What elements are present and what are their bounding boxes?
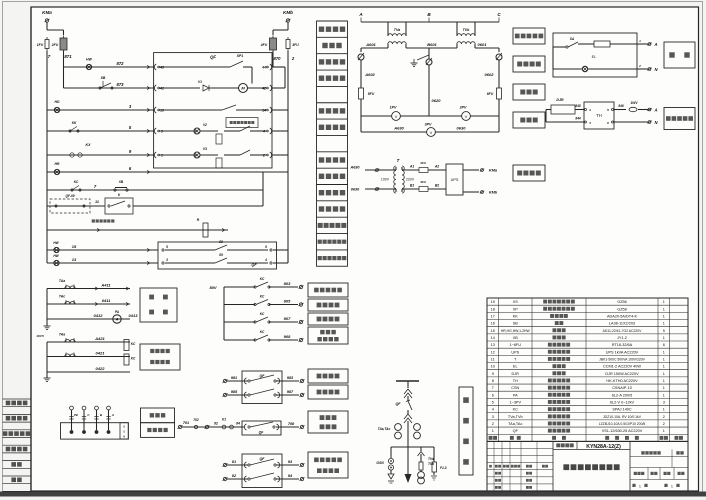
svg-text:B601: B601	[427, 42, 437, 47]
svg-text:TAa: TAa	[59, 279, 65, 283]
svg-text:GZ58: GZ58	[617, 307, 627, 311]
svg-text:0630: 0630	[351, 188, 360, 192]
fuse 4FU	[270, 38, 277, 50]
svg-text:LZZBJ10-10A 0.5/10P10 200/5: LZZBJ10-10A 0.5/10P10 200/5	[599, 422, 646, 426]
svg-text:3FU: 3FU	[292, 43, 299, 47]
wire 0602	[498, 64, 500, 116]
svg-text:SA: SA	[570, 37, 575, 41]
svg-text:TH: TH	[513, 379, 518, 383]
svg-text:1~3PV: 1~3PV	[509, 400, 521, 404]
svg-text:GSN: GSN	[376, 461, 384, 465]
svg-text:1: 1	[663, 358, 665, 362]
svg-text:TVb: TVb	[463, 28, 471, 32]
svg-text:10: 10	[491, 365, 495, 369]
svg-text:HR,HG,HW,1-2HW: HR,HG,HW,1-2HW	[501, 329, 531, 333]
svg-text:JDZ10-10A. RV 10/0.1kV: JDZ10-10A. RV 10/0.1kV	[603, 415, 642, 419]
label box heavy-start	[308, 313, 348, 325]
svg-text:1: 1	[663, 307, 665, 311]
svg-text:1: 1	[663, 429, 665, 433]
fuse-switch B / earthing	[426, 59, 432, 65]
svg-text:1PV: 1PV	[390, 106, 397, 110]
title block	[487, 441, 688, 491]
UPS box	[446, 164, 463, 195]
svg-text:84: 84	[236, 422, 240, 426]
svg-text:708: 708	[288, 422, 295, 426]
svg-text:0412: 0412	[94, 313, 104, 318]
branch line	[391, 446, 434, 448]
VT TVa	[387, 22, 389, 33]
svg-text:QF: QF	[513, 429, 519, 433]
svg-text:S9: S9	[219, 253, 223, 257]
ground at VT neutral	[417, 55, 429, 60]
svg-text:14: 14	[262, 109, 266, 113]
secondary to UPS	[402, 169, 419, 171]
svg-text:846: 846	[618, 104, 624, 108]
label box spare-aux-contact	[308, 452, 348, 478]
svg-text:1: 1	[663, 386, 665, 390]
svg-text:KC: KC	[74, 180, 79, 184]
label cell cap-power	[317, 216, 348, 218]
svg-text:KC: KC	[260, 295, 265, 299]
svg-text:7: 7	[492, 386, 494, 390]
svg-text:871: 871	[64, 54, 72, 59]
svg-text:5: 5	[166, 245, 168, 249]
svg-text:UPS: UPS	[451, 178, 459, 182]
svg-text:6: 6	[492, 393, 494, 397]
svg-text:SB: SB	[101, 76, 106, 80]
sensor A	[107, 430, 111, 434]
svg-text:PA: PA	[513, 393, 518, 397]
rung open indication: lamp HG wire 3	[47, 109, 154, 111]
svg-text:S8: S8	[219, 240, 223, 244]
label box overcurrent-trip	[308, 299, 348, 311]
svg-text:983: 983	[287, 376, 294, 380]
label cell open-circ	[317, 151, 348, 153]
signal contact row 907	[224, 321, 255, 323]
label box current measurement	[140, 288, 177, 322]
breaker QF internal dashed box	[154, 53, 272, 168]
svg-text:11: 11	[95, 200, 99, 204]
signal row 981/983	[223, 379, 226, 382]
rung storage indication: lamp HW	[64, 66, 155, 68]
svg-text:HW: HW	[86, 58, 92, 62]
svg-text:1: 1	[663, 393, 665, 397]
svg-text:0411: 0411	[102, 298, 111, 303]
label cell blank	[317, 85, 348, 87]
label box close-signal	[308, 369, 348, 383]
svg-text:V: V	[395, 114, 398, 119]
wire A602	[360, 64, 362, 116]
label cell test-pos	[317, 233, 348, 235]
fuse 3FU	[286, 40, 290, 49]
svg-text:TVa: TVa	[394, 28, 400, 32]
svg-text:985: 985	[231, 390, 238, 394]
label cell ctrl-power	[317, 20, 348, 22]
svg-text:701: 701	[183, 421, 189, 425]
signature grid	[487, 447, 553, 449]
svg-text:13: 13	[72, 257, 77, 262]
svg-text:0601: 0601	[478, 42, 488, 47]
svg-text:5: 5	[663, 329, 665, 333]
one-line diagram: busbar	[396, 380, 419, 382]
label cell store-circ	[317, 69, 348, 71]
signal contact row 905	[224, 304, 255, 306]
product model cells	[553, 448, 630, 450]
svg-text:0413: 0413	[129, 313, 139, 318]
rung protection trip: KC contact and link XB	[46, 172, 48, 190]
label cell close-circ	[317, 118, 348, 120]
svg-text:4: 4	[264, 258, 267, 262]
wire 2	[287, 51, 289, 263]
svg-text:A411: A411	[100, 283, 111, 288]
svg-text:987: 987	[287, 390, 294, 394]
svg-text:A2: A2	[434, 165, 439, 169]
VT label boxes	[513, 28, 545, 44]
svg-text:0630: 0630	[457, 126, 467, 131]
spare contact row 81/93	[223, 463, 226, 466]
svg-text:TVb: TVb	[428, 462, 434, 466]
svg-text:220V: 220V	[406, 178, 415, 182]
svg-text:702: 702	[193, 418, 199, 422]
thermostat TH box	[584, 102, 614, 129]
voltmeter 2PV	[429, 115, 462, 117]
caption external trip contact	[92, 219, 95, 222]
link XB	[114, 189, 116, 191]
svg-text:2: 2	[638, 64, 641, 68]
svg-text:2: 2	[262, 154, 265, 158]
svg-text:0602: 0602	[485, 72, 495, 77]
label cell store-ind	[317, 53, 348, 55]
drawout contact upper	[404, 389, 412, 398]
motor circuit inside QF	[159, 66, 230, 68]
svg-text:15: 15	[491, 329, 495, 333]
svg-text:JY1-2: JY1-2	[617, 336, 627, 340]
svg-text:A1: A1	[409, 165, 414, 169]
label cell close-ind	[317, 167, 348, 169]
svg-text:81: 81	[232, 460, 236, 464]
svg-text:S: S	[123, 430, 125, 434]
svg-text:4FU: 4FU	[260, 43, 268, 47]
feeder arrow	[405, 474, 412, 483]
fuse 5FU	[359, 88, 364, 99]
svg-text:42: 42	[261, 87, 266, 91]
svg-text:DJR 150W AC220V: DJR 150W AC220V	[605, 372, 639, 376]
svg-text:1: 1	[663, 336, 665, 340]
svg-text:16: 16	[491, 322, 495, 326]
svg-text:XB: XB	[118, 180, 124, 184]
svg-text:13: 13	[491, 343, 495, 347]
pushbutton SB	[99, 87, 101, 89]
svg-text:872: 872	[117, 61, 125, 66]
resistor in lamp line	[594, 41, 610, 47]
primary-scheme label box vertical	[459, 387, 473, 475]
svg-text:6: 6	[663, 343, 665, 347]
svg-text:V: V	[430, 130, 433, 135]
signal contact row 903	[224, 286, 255, 288]
svg-text:4: 4	[588, 121, 591, 125]
svg-text:KC: KC	[513, 408, 519, 412]
label box live display	[141, 423, 175, 438]
svg-text:981: 981	[231, 376, 237, 380]
capacitor trip device feed with fuse R	[47, 229, 228, 231]
anti-pump label box	[226, 118, 258, 128]
wire right of rung 872 to 870 rail	[272, 66, 285, 68]
svg-text:TAc: TAc	[59, 295, 65, 299]
diode V2 and closing coil	[194, 128, 200, 134]
svg-text:K1: K1	[222, 418, 226, 422]
svg-text:KMa: KMa	[42, 10, 52, 15]
svg-text:44: 44	[261, 66, 266, 70]
svg-text:0620: 0620	[432, 98, 442, 103]
svg-text:82: 82	[214, 422, 218, 426]
svg-text:RT18-32/6A: RT18-32/6A	[612, 343, 633, 347]
label box cable-room heating	[664, 108, 695, 130]
svg-text:KMa: KMa	[489, 169, 497, 173]
label box overcurrent protection	[140, 344, 180, 370]
svg-text:1WV: 1WV	[631, 101, 639, 105]
svg-text:V3: V3	[203, 147, 207, 151]
svg-text:3: 3	[492, 415, 494, 419]
svg-text:1: 1	[639, 484, 641, 488]
svg-text:2: 2	[663, 422, 665, 426]
svg-text:CCM1-2 AC220V 40W: CCM1-2 AC220V 40W	[603, 365, 641, 369]
svg-text:KK: KK	[513, 314, 519, 318]
svg-text:6L2-A 200/5: 6L2-A 200/5	[612, 393, 632, 397]
phase bus wire	[361, 21, 499, 23]
voltmeter 1PV	[361, 115, 392, 117]
switch SA	[566, 46, 568, 48]
svg-text:2PV: 2PV	[459, 106, 467, 110]
svg-text:QF: QF	[251, 263, 257, 267]
label box lighting	[664, 42, 695, 68]
wire 871	[63, 51, 65, 67]
svg-text:1KC5: 1KC5	[36, 334, 44, 338]
svg-text:KYN28A-12(Z): KYN28A-12(Z)	[586, 444, 621, 450]
svg-text:UPS: UPS	[511, 350, 519, 354]
svg-text:11: 11	[491, 358, 495, 362]
svg-text:KC: KC	[131, 357, 136, 361]
fuse-switch A	[358, 54, 364, 60]
svg-text:KMb: KMb	[283, 10, 293, 15]
secondary wires A601 B601 0601	[361, 47, 388, 49]
row 0422	[47, 371, 130, 373]
label box control power	[513, 165, 545, 181]
svg-text:908: 908	[284, 334, 291, 339]
rung storage circuit: switch SB	[46, 109, 48, 111]
svg-text:14: 14	[491, 336, 495, 340]
svg-text:KC: KC	[131, 342, 136, 346]
sensor B	[95, 430, 99, 434]
svg-text:8: 8	[492, 379, 494, 383]
svg-text:XB: XB	[513, 336, 519, 340]
wire 7	[46, 51, 48, 110]
svg-text:XS: XS	[513, 300, 519, 304]
rung close indication lamp HR	[46, 155, 48, 172]
svg-text:GZ56: GZ56	[617, 300, 627, 304]
svg-text:4: 4	[492, 408, 494, 412]
svg-text:PA: PA	[115, 310, 120, 314]
sensor PE	[70, 430, 74, 434]
svg-text:A: A	[115, 318, 119, 322]
870 rail drop	[273, 66, 285, 68]
svg-text:TVa,TVb: TVa,TVb	[508, 415, 523, 419]
fuse 2FU	[60, 38, 67, 50]
svg-text:1: 1	[663, 365, 665, 369]
svg-text:QF: QF	[396, 402, 402, 406]
label cell fuse	[317, 36, 348, 38]
svg-text:2FU: 2FU	[51, 43, 59, 47]
left strip filing cells	[3, 398, 32, 400]
parts list table	[487, 298, 688, 441]
svg-text:XP: XP	[513, 307, 519, 311]
svg-text:0422: 0422	[96, 366, 106, 371]
motor M	[159, 87, 200, 89]
svg-text:LA36-11X2/203: LA36-11X2/203	[609, 322, 635, 326]
CT TAa	[47, 288, 130, 290]
svg-text:844: 844	[575, 117, 581, 121]
svg-text:T: T	[397, 158, 400, 163]
label cell open-ind	[317, 102, 348, 104]
svg-text:1~6FU: 1~6FU	[509, 343, 521, 347]
label cell ext-trip	[317, 200, 348, 202]
svg-text:SB: SB	[513, 322, 519, 326]
sensor C	[82, 430, 86, 434]
rung position indication 13	[47, 262, 158, 264]
svg-text:1: 1	[663, 372, 665, 376]
svg-text:KMb: KMb	[489, 191, 498, 195]
svg-text:KC: KC	[260, 330, 265, 334]
svg-text:SP1: SP1	[237, 54, 244, 58]
svg-text:3: 3	[166, 258, 168, 262]
svg-text:AD11-22/41-7G2 AC220V: AD11-22/41-7G2 AC220V	[603, 329, 643, 333]
left filing strip	[30, 7, 32, 491]
arrester F1-3	[433, 447, 435, 462]
svg-text:TAa,TAc: TAa,TAc	[508, 422, 522, 426]
live-display sensor group GSN	[61, 423, 129, 439]
svg-text:6FU: 6FU	[487, 92, 494, 96]
signal row 985/987	[223, 393, 226, 396]
label box relay-alarm	[308, 283, 348, 297]
svg-text:KX: KX	[86, 143, 92, 147]
ground	[46, 322, 48, 326]
svg-text:19: 19	[491, 300, 495, 304]
svg-text:KC: KC	[260, 277, 265, 281]
svg-text:SPAJ 140C: SPAJ 140C	[612, 408, 632, 412]
svg-text:1: 1	[663, 300, 665, 304]
svg-text:1: 1	[663, 408, 665, 412]
close/open signal QF aux box	[242, 371, 282, 404]
svg-text:A: A	[653, 108, 657, 113]
CT row 0421 with relay coil	[47, 356, 130, 358]
svg-text:907: 907	[284, 316, 291, 321]
svg-text:EL: EL	[513, 365, 518, 369]
svg-text:1: 1	[492, 429, 494, 433]
svg-text:3FU: 3FU	[420, 161, 427, 165]
svg-text:100V: 100V	[381, 178, 390, 182]
external trip contact boxes	[46, 190, 48, 206]
svg-text:CSN: CSN	[511, 386, 519, 390]
rung position indication 15	[47, 249, 158, 251]
svg-text:DJR: DJR	[512, 372, 520, 376]
fuse 6FU	[497, 88, 502, 99]
QF aux contact	[222, 105, 236, 110]
ammeter PA	[47, 318, 130, 320]
signal contact row 908	[224, 339, 255, 341]
label box lowset-alarm	[308, 327, 348, 344]
svg-text:4FU: 4FU	[419, 180, 427, 184]
svg-text:873: 873	[117, 82, 125, 87]
svg-text:17: 17	[491, 315, 495, 319]
label cell blank2	[317, 134, 348, 136]
svg-text:N: N	[123, 435, 125, 439]
svg-text:12: 12	[491, 350, 495, 354]
voltmeter 3PV	[360, 116, 362, 132]
svg-text:F1-3: F1-3	[440, 466, 447, 470]
position switch dashed box QF	[158, 242, 277, 269]
svg-text:HK-KTH0 AC220V: HK-KTH0 AC220V	[606, 379, 638, 383]
svg-text:VS1-12/630-25 AC220V: VS1-12/630-25 AC220V	[602, 429, 643, 433]
table header row	[489, 436, 493, 440]
svg-text:9: 9	[492, 372, 494, 376]
svg-text:5FU: 5FU	[368, 92, 375, 96]
svg-text:QF: QF	[260, 457, 266, 461]
label box open-signal	[308, 385, 348, 399]
svg-text:TVa: TVa	[428, 457, 434, 461]
svg-text:903: 903	[284, 281, 291, 286]
svg-text:18: 18	[491, 307, 495, 311]
svg-text:A630: A630	[349, 166, 360, 170]
svg-text:QF: QF	[210, 55, 216, 60]
svg-text:80V: 80V	[209, 285, 216, 290]
svg-text:870: 870	[274, 56, 282, 61]
right info grid	[630, 455, 688, 457]
CT metering group	[46, 289, 48, 327]
lamp EL	[582, 66, 587, 71]
svg-text:QF-09: QF-09	[65, 194, 74, 198]
svg-text:1: 1	[663, 379, 665, 383]
svg-text:A: A	[358, 12, 362, 17]
svg-text:6L2-V 0~12kV: 6L2-V 0~12kV	[610, 400, 635, 404]
diode V1	[203, 85, 209, 91]
label cell work-pos	[317, 249, 348, 251]
svg-text:HR: HR	[55, 162, 60, 166]
wire left top branch	[47, 29, 64, 31]
svg-text:A421: A421	[94, 336, 105, 341]
UPS outputs KMa KMb	[463, 169, 479, 171]
svg-text:JBK1-500C 500VA 100V/220V: JBK1-500C 500VA 100V/220V	[599, 357, 645, 361]
svg-text:15: 15	[72, 244, 77, 249]
svg-text:845: 845	[575, 104, 581, 108]
svg-text:HG: HG	[54, 100, 59, 104]
lighting circuit box	[553, 33, 637, 77]
svg-text:5: 5	[492, 401, 494, 405]
svg-text:EL: EL	[592, 55, 597, 59]
output 846 through resistor 1WV	[614, 109, 626, 111]
svg-text:1: 1	[663, 315, 665, 319]
right label column frame	[317, 21, 348, 266]
svg-text:TAa,TAc: TAa,TAc	[378, 427, 391, 431]
bottom page shadow	[0, 492, 706, 497]
svg-text:1: 1	[663, 322, 665, 326]
svg-text:2: 2	[663, 415, 665, 419]
spare contact row 82/94	[223, 477, 226, 480]
svg-text:3PV: 3PV	[425, 123, 432, 127]
svg-text:UPS 1kVA AC220V: UPS 1kVA AC220V	[606, 350, 639, 354]
svg-text:905: 905	[284, 299, 291, 304]
svg-text:CSNAIP-10: CSNAIP-10	[612, 386, 632, 390]
svg-text:TH: TH	[596, 113, 602, 118]
label cell prot-trip	[317, 184, 348, 186]
